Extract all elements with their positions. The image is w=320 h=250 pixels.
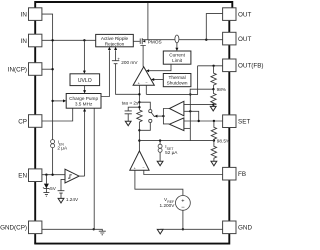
pin GND(CP) [29,221,42,234]
wire EN pin to comparator [42,174,65,176]
battery reference 1.24V [58,191,65,199]
pin OUT 2 [223,32,236,45]
pin IN 2 [29,34,42,47]
box active ripple rejection U3 [96,34,134,46]
ground symbol under zener [43,193,49,197]
wire charge pump enable from comparator with arrow [84,111,86,176]
wire VREF to ground rail [182,210,184,229]
node junction sense top [189,93,191,95]
op-amp U8 error amplifier [130,151,149,170]
svg-text:EN: EN [18,173,27,180]
wire divider sense vertical [189,94,191,140]
comparator U9 EN threshold [65,169,79,183]
wire gate drive ARR to PMOS [133,40,140,42]
node junction charge pump input [51,100,53,102]
wire IN2 to active ripple rejection [42,39,96,41]
wire SET node vertical big amp input to resistor [138,85,140,110]
wire lower amp input2 tee [184,127,190,129]
wire GND(CP) pin to ground symbol [42,229,102,231]
wire upper amp input2 to SET wire [184,111,199,120]
wire IN(CP) to bus [42,68,53,70]
resistor R3 OUT(FB) divider lower [211,89,216,106]
node junction IN(CP) [51,68,53,70]
wire current sense to current limit with arrow [176,43,178,48]
wire error amp left input to VREF [135,170,183,195]
pin SET [223,115,236,128]
wire capacitor branch [128,107,139,111]
node junction 200mV join [138,93,140,95]
wire OUT(FB) sense down to amp row [146,66,197,95]
pin OUT 1 [223,8,236,21]
wire top power rail IN to OUT [35,2,232,8]
wire switch lower branch [139,123,150,131]
pin IN 1 [29,8,42,21]
svg-text:98%: 98% [217,87,226,92]
wire current limit output to error amp with arrow [148,64,171,71]
pin CP [29,115,42,128]
resistor R2 OUT(FB) divider upper [211,66,216,89]
ground arrow left end of ground rail [157,229,163,234]
svg-text:GND: GND [238,225,252,232]
svg-text:FB: FB [238,171,246,178]
svg-text:IN: IN [21,38,28,45]
svg-text:52 µA: 52 µA [165,150,178,155]
resistor R5 SET divider lower [211,141,216,162]
svg-text:Active Ripple: Active Ripple [101,36,129,41]
wire PMOS rail drop from top rail [147,3,149,40]
svg-text:OUT: OUT [238,36,251,43]
svg-text:Thermal: Thermal [168,75,185,80]
ground arrow under SET divider [211,161,217,166]
wire SET node resistor bottom to error amp apex [138,122,140,151]
node junction IEN branch [51,174,53,176]
node junction tap wire [138,139,140,141]
wire left pin bus [34,20,36,243]
node junction input2 crossing [189,110,191,112]
svg-text:CP: CP [18,118,27,125]
node junction switch bottom branch [138,129,140,131]
svg-text:2 µA: 2 µA [57,146,68,151]
wire charge pump ground leg to GND(CP) [93,108,95,229]
pin EN [29,169,42,182]
transistor Q1 PMOS pass device [140,38,146,67]
box UVLO U2 [70,74,100,86]
current source ISET 52uA [159,141,161,145]
box current limit U4 [163,51,191,64]
svg-text:+: + [117,56,120,61]
current source IEN 2uA [51,140,55,144]
svg-text:200 mV: 200 mV [121,60,138,65]
ground arrow under OUT(FB) divider [210,106,216,111]
wire thermal box corner stub [189,89,191,95]
wire bottom rail [34,234,229,244]
pin OUT(FB) [223,59,236,72]
node junction zener branch [45,174,47,176]
node junction UVLO feed [83,39,85,41]
wire ripple reference branch with arrow into ARR [115,50,117,61]
svg-text:+: + [181,198,184,204]
wire SET pin to lower amp input1 [184,120,223,122]
wire switch upper branch [139,102,150,109]
pin IN(CP) [29,63,42,76]
box thermal shutdown U5 [163,74,191,87]
wire OUT rail PMOS drain to OUT2 [142,39,222,41]
voltage reference VREF 1.200V [176,196,191,211]
wire FB pin to error amp right input [144,170,223,174]
capacitor C1 soft-start [125,111,132,114]
node junction 98pct tap [212,88,214,90]
svg-text:98.5%: 98.5% [217,139,230,144]
svg-text:IN(CP): IN(CP) [8,66,27,73]
wire CP pin to charge pump bottom [42,108,73,121]
wire IN bus below IEN to EN wire [52,148,54,175]
op-amp U7 switch driver lower [169,118,184,131]
svg-text:−: − [181,205,185,211]
svg-text:1.24V: 1.24V [66,197,79,202]
resistor R1 SET node [137,110,142,122]
wire switch control from amps with arrow [156,115,163,117]
svg-text:3.5 MHz: 3.5 MHz [75,102,93,107]
node junction 98.5pct tap [213,139,215,141]
pin FB [223,167,236,180]
node junction SET wire right [213,120,215,122]
svg-text:SET: SET [238,119,250,126]
node junction switch top branch [138,101,140,103]
wire analog ground rail to GND pin [160,228,222,230]
svg-text:Current: Current [169,53,185,58]
node junction OUT(FB) divider top [212,65,214,67]
op-amp U1 output buffer driving PMOS [133,67,154,85]
wire 200mV battery to SET node [116,64,140,95]
wire comparator minus input to 1.24V reference [61,179,65,190]
node junction switch control [162,115,164,117]
node junction divider bottom [212,104,214,106]
wire 98.5pct tap to SET resistor node [139,140,214,142]
wire UVLO to charge pump with arrow [84,86,86,91]
pin GND [223,221,236,234]
node junction cap branch [138,106,140,108]
svg-text:Charge Pump: Charge Pump [69,96,98,101]
svg-text:Shutdown: Shutdown [167,81,188,86]
svg-text:Rejection: Rejection [105,41,125,46]
ground arrow under ISET [157,161,163,166]
wire thermal shutdown output to error amp with arrow [153,79,163,81]
box charge pump 3.5 MHz [66,94,101,109]
node junction VREF ground [182,228,184,230]
wire charge pump input from IN(CP) bus with arrow [53,100,64,102]
svg-text:GND(CP): GND(CP) [0,225,27,232]
svg-text:5V: 5V [50,186,57,191]
ground symbol GND(CP) [99,231,106,235]
wire upper amp input1 to 98pct divider bottom [184,104,213,106]
wire IN1 to IN bus vertical [42,14,53,140]
battery 200 mV offset [112,61,119,64]
wire OUT(FB) pin to divider [198,65,223,67]
node junction OUT1 link [205,39,207,41]
wire charge pump output up to ripple rejection with arrow [101,50,109,96]
wire amp tips to switch control node [163,109,169,124]
wire UVLO input with arrow [83,40,85,71]
wire right pin bus [228,20,230,221]
svg-text:OUT(FB): OUT(FB) [238,63,264,70]
ground arrow under capacitor [125,121,131,126]
svg-text:IN: IN [21,12,28,19]
svg-text:OUT: OUT [238,12,251,19]
node junction ISET [159,139,161,141]
ground arrow under 1.24V reference [58,198,64,203]
node junction GND(CP) ground [93,228,95,230]
svg-text:Limit: Limit [172,58,183,63]
node junction IN bus / IN2 wire [51,39,53,41]
wire 98pct tap to thermal corner [190,88,213,90]
op-amp U6 switch driver upper [169,101,184,116]
node junction SET wire left [198,120,200,122]
current sense ellipse on OUT rail [175,35,179,43]
svg-text:1.200V: 1.200V [160,203,176,208]
zener diode D1 5V clamp [45,175,47,184]
wire OUT1 to OUT rail [206,14,222,40]
wire comparator output to charge pump [79,175,85,177]
switch S1 fast start-up [149,110,152,113]
svg-text:tau ≈ 2s: tau ≈ 2s [122,101,139,106]
wire capacitor to ground [127,114,129,121]
svg-text:UVLO: UVLO [78,78,92,84]
resistor R4 SET divider upper [211,121,216,141]
